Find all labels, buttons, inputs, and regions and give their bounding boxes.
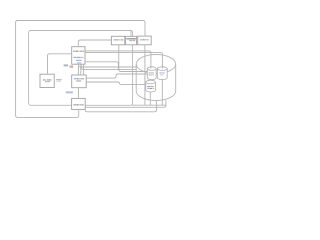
wire F right to big cylinder bottom <box>85 101 166 108</box>
wire H right to cylinder DB1 top <box>85 51 151 68</box>
wire D top stub <box>130 31 132 37</box>
wire C bottom down to cylinder DB1 left <box>119 45 148 72</box>
wire H bottom to I top (2) <box>80 64 82 75</box>
label above box F <box>66 91 73 93</box>
label between H and I <box>64 64 68 66</box>
box G client <box>40 74 54 87</box>
wire I bottom to F top <box>77 88 79 99</box>
label text box C (colored word) <box>114 39 124 40</box>
label text box D <box>126 38 136 41</box>
wire H top to C left <box>78 40 111 47</box>
wire H right lower to junction vertical <box>85 62 118 70</box>
box I app server <box>72 75 87 88</box>
wire H bottom to I top (1) <box>77 64 79 75</box>
label text box F (colored word) <box>73 104 83 105</box>
wire H right to cylinder DB2 top <box>85 53 162 69</box>
label text cylinder DB3 <box>147 86 154 89</box>
wire I right to cylinder DB3 left <box>86 82 146 84</box>
box E external service 3 <box>138 36 152 45</box>
wire beta H bottom around to under-cylinder run <box>81 64 136 69</box>
wire DB3 bottom down <box>149 92 151 105</box>
label right of box G <box>56 79 62 80</box>
box H web server <box>72 47 85 64</box>
wire alpha H bottom around to under-cylinder run <box>78 64 136 67</box>
wire I right to cylinder DB1 left <box>86 74 147 78</box>
cylinder DB3 <box>146 80 156 92</box>
box C external service 1 <box>111 36 124 45</box>
box D external service 2 <box>126 36 137 45</box>
container rect B <box>29 31 133 106</box>
label text cylinder DB1 <box>149 72 155 75</box>
label text cylinder DB2 <box>159 72 164 75</box>
label text box I <box>74 78 84 82</box>
wire G top to H left <box>48 54 72 74</box>
wire F bottom-right to big cylinder bottom anchor <box>85 100 156 111</box>
big cylinder database server <box>136 55 176 101</box>
wire H bottom to I top (3) <box>83 64 85 75</box>
label text box E (colored word) <box>140 39 149 40</box>
cylinder DB2 <box>157 67 167 80</box>
box F service <box>72 98 86 109</box>
wire long perimeter connector: box E top, across top, down left side, along bottom, into box F <box>16 21 145 118</box>
label text box G <box>43 79 52 82</box>
wire DB2 bottom down <box>161 80 163 106</box>
wire bottom run under cylinder <box>133 104 166 106</box>
label text box H title and body <box>73 51 84 64</box>
cylinder DB1 <box>147 67 156 80</box>
wire E bottom down to bottom run <box>144 45 146 105</box>
